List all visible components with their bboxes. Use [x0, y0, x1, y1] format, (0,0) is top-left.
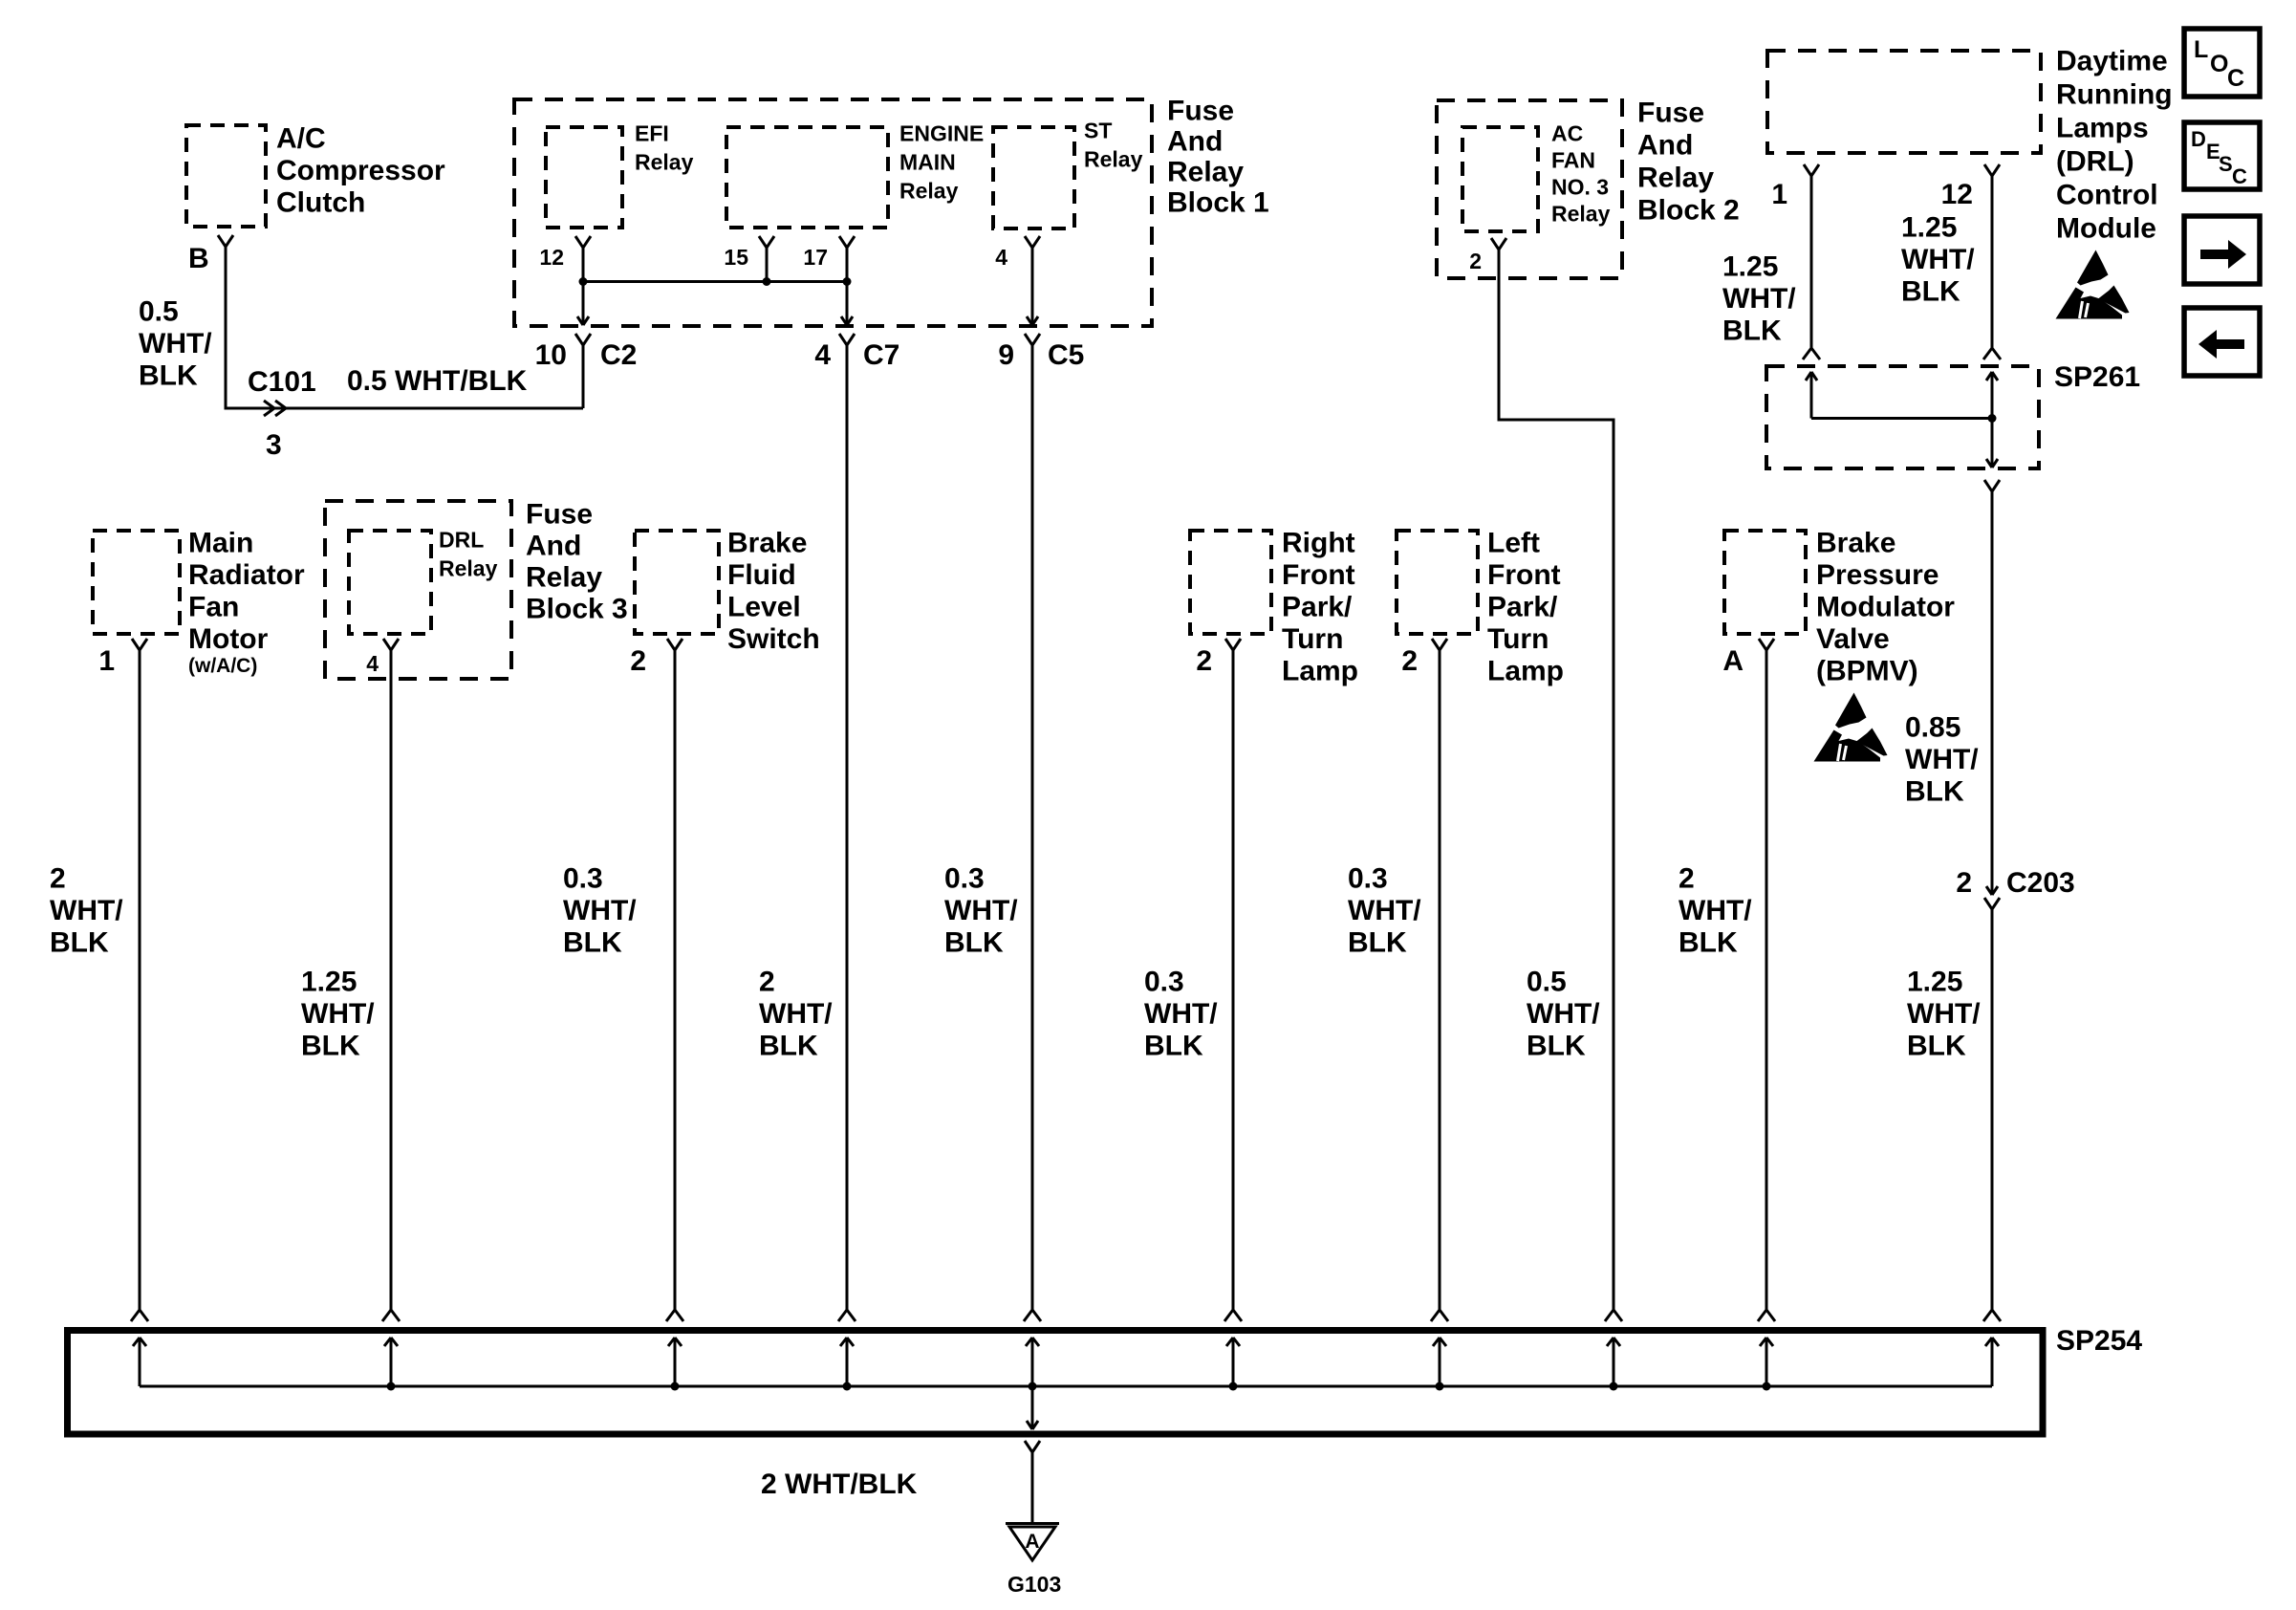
SP261 internal horizontal link: [1811, 417, 1992, 420]
svg-text:Switch: Switch: [727, 623, 820, 655]
svg-text:0.3: 0.3: [1348, 863, 1388, 895]
svg-text:Modulator: Modulator: [1816, 592, 1955, 623]
pin 15 connector of ENGINE MAIN Relay: [759, 236, 774, 248]
Fuse And Relay Block 3 (outer dashed box): [325, 501, 511, 679]
component A/C Compressor Clutch (dashed box): [186, 125, 266, 227]
svg-text:Valve: Valve: [1816, 623, 1890, 655]
svg-text:Control: Control: [2056, 180, 2158, 211]
svg-text:C101: C101: [248, 366, 316, 398]
svg-text:Level: Level: [727, 592, 801, 623]
svg-text:SP254: SP254: [2056, 1325, 2142, 1357]
svg-text:1: 1: [1771, 179, 1787, 210]
svg-text:O: O: [2210, 51, 2228, 77]
bus entry chevron wire 10: [1983, 1310, 2001, 1321]
svg-text:And: And: [1637, 130, 1693, 162]
bus entry chevron wire 7: [1431, 1310, 1448, 1321]
svg-text:2: 2: [1401, 645, 1418, 677]
Fuse And Relay Block 1 (outer dashed box): [514, 99, 1152, 326]
ESD sensitivity symbol (BPMV): [1814, 693, 1888, 762]
svg-text:WHT/: WHT/: [301, 998, 375, 1030]
svg-text:0.85: 0.85: [1905, 712, 1960, 744]
bus entry chevron wire 4: [838, 1310, 856, 1321]
pin 2 connector of brake fluid level switch: [667, 639, 682, 650]
svg-text:0.3: 0.3: [1144, 967, 1184, 998]
svg-text:Front: Front: [1487, 559, 1561, 591]
svg-text:1.25: 1.25: [1901, 212, 1957, 244]
wire 0.3 WHT/BLK right lamp to bus: [1232, 650, 1235, 1312]
relay ENGINE MAIN Relay (dashed box): [726, 127, 888, 228]
svg-text:Motor: Motor: [188, 623, 269, 655]
svg-text:BLK: BLK: [1144, 1031, 1203, 1062]
SP254 internal up-arrow wire 5: [1031, 1338, 1034, 1386]
svg-text:C: C: [2232, 164, 2247, 188]
svg-text:2: 2: [630, 645, 646, 677]
svg-text:0.5: 0.5: [1527, 967, 1567, 998]
junction node on SP254 bus line: [1610, 1382, 1618, 1391]
svg-text:9: 9: [998, 339, 1014, 371]
SP254 internal up-arrow wire 8: [1613, 1338, 1615, 1386]
SP254 internal up-arrow wire 3: [674, 1338, 677, 1386]
svg-text:2: 2: [50, 863, 66, 895]
pin 2 connector of right front lamp: [1225, 639, 1241, 650]
svg-text:Park/: Park/: [1282, 592, 1353, 623]
pin 12 connector of EFI Relay: [575, 236, 591, 248]
svg-text:10: 10: [535, 339, 567, 371]
svg-text:BLK: BLK: [759, 1031, 818, 1062]
svg-text:WHT/: WHT/: [1907, 998, 1981, 1030]
bus entry chevron wire 6: [1224, 1310, 1242, 1321]
svg-text:A: A: [1025, 1531, 1039, 1553]
svg-text:Fuse: Fuse: [1167, 96, 1234, 127]
svg-text:Block 2: Block 2: [1637, 195, 1740, 227]
svg-text:1: 1: [98, 645, 115, 677]
junction node at pin 12 wire: [579, 277, 588, 286]
svg-text:MAIN: MAIN: [899, 150, 956, 175]
svg-text:4: 4: [995, 245, 1007, 270]
svg-text:C203: C203: [2006, 867, 2075, 899]
pin 12 connector of DRL module: [1984, 164, 2000, 176]
svg-text:Turn: Turn: [1282, 623, 1343, 655]
junction node on SP254 bus line: [843, 1382, 852, 1391]
svg-text:Lamp: Lamp: [1487, 656, 1564, 687]
svg-text:WHT/: WHT/: [944, 895, 1018, 926]
wire 2 WHT/BLK to ground: [1031, 1452, 1034, 1522]
connector C7 fork: [839, 334, 855, 345]
svg-text:WHT/: WHT/: [1527, 998, 1600, 1030]
svg-text:2: 2: [1469, 249, 1482, 273]
SP254 ground exit (down arrow): [1031, 1386, 1034, 1429]
wire SP261 to C203: [1991, 491, 1994, 895]
svg-text:A/C: A/C: [276, 123, 326, 155]
svg-text:And: And: [1167, 126, 1223, 158]
bus entry chevron wire 5: [1024, 1310, 1041, 1321]
svg-text:Relay: Relay: [1084, 147, 1143, 172]
bus entry chevron wire 1: [131, 1310, 148, 1321]
svg-text:DRL: DRL: [439, 528, 484, 553]
wire pin 17 down: [846, 248, 849, 282]
wire horizontal 0.5 WHT/BLK to C2: [225, 407, 584, 410]
svg-text:0.3: 0.3: [563, 863, 603, 895]
svg-text:BLK: BLK: [1679, 927, 1738, 959]
wire C7 branch exits block (down arrow): [846, 282, 849, 326]
svg-text:WHT/: WHT/: [1679, 895, 1752, 926]
wire DRL pin 12 down to SP261: [1991, 176, 1994, 348]
svg-text:0.5: 0.5: [139, 296, 179, 328]
svg-text:EFI: EFI: [635, 121, 669, 146]
svg-text:Relay: Relay: [526, 562, 602, 594]
svg-text:BLK: BLK: [301, 1031, 360, 1062]
splice pack SP254 bus (thick box): [68, 1331, 2044, 1435]
component Daytime Running Lamps (DRL) Control Module (dashed box): [1767, 51, 2041, 153]
svg-text:Daytime: Daytime: [2056, 46, 2168, 77]
svg-text:2 WHT/BLK: 2 WHT/BLK: [761, 1469, 918, 1500]
component Brake Fluid Level Switch (dashed box): [635, 531, 719, 634]
svg-text:Lamps: Lamps: [2056, 113, 2149, 144]
SP254 internal up-arrow wire 1: [139, 1338, 141, 1386]
junction node on SP254 bus line: [671, 1382, 680, 1391]
svg-text:0.3: 0.3: [944, 863, 985, 895]
svg-text:(BPMV): (BPMV): [1816, 656, 1918, 687]
SP254 internal bus line: [140, 1385, 1992, 1388]
junction node on SP254 bus line: [1763, 1382, 1771, 1391]
svg-text:B: B: [188, 243, 209, 274]
bus entry chevron wire 2: [382, 1310, 400, 1321]
chevron wire entry SP261 right: [1983, 348, 2001, 359]
svg-text:SP261: SP261: [2054, 361, 2140, 393]
svg-text:4: 4: [366, 651, 379, 676]
svg-text:17: 17: [803, 245, 828, 270]
svg-text:Pressure: Pressure: [1816, 559, 1939, 591]
svg-text:4: 4: [814, 339, 831, 371]
chevron wire entry SP261 left: [1803, 348, 1820, 359]
wire 2 WHT/BLK fan motor to bus: [139, 650, 141, 1312]
junction node on SP254 bus line: [387, 1382, 396, 1391]
SP254 internal up-arrow wire 10: [1991, 1338, 1994, 1386]
svg-text:BLK: BLK: [50, 927, 109, 959]
svg-text:FAN: FAN: [1551, 148, 1595, 173]
splice pack SP261 (dashed box): [1766, 366, 2039, 468]
svg-text:Relay: Relay: [1551, 202, 1611, 227]
svg-text:C7: C7: [863, 339, 899, 371]
svg-text:AC: AC: [1551, 121, 1583, 146]
button back arrow: [2184, 308, 2260, 376]
svg-text:15: 15: [724, 245, 748, 270]
wire up to C2 connector: [582, 345, 585, 408]
pin 1 connector of DRL module: [1804, 164, 1819, 176]
bus entry chevron wire 9: [1758, 1310, 1775, 1321]
wire C7 to SP254 bus: [846, 345, 849, 1312]
svg-text:Fuse: Fuse: [1637, 98, 1704, 129]
button LOC: [2184, 29, 2260, 97]
svg-text:D: D: [2191, 127, 2206, 151]
wire AC FAN pin 2 down and right to bus: [1499, 250, 1614, 1312]
svg-text:BLK: BLK: [1527, 1031, 1586, 1062]
pin A connector of BPMV: [1759, 639, 1774, 650]
svg-text:Main: Main: [188, 528, 253, 559]
wire pin 15 stub: [766, 248, 769, 282]
svg-text:WHT/: WHT/: [50, 895, 123, 926]
component Left Front Park/Turn Lamp (dashed box): [1397, 531, 1478, 634]
component Right Front Park/Turn Lamp (dashed box): [1190, 531, 1271, 634]
wire 0.3 WHT/BLK left lamp to bus: [1439, 650, 1441, 1312]
bus entry chevron wire 3: [666, 1310, 683, 1321]
svg-text:Relay: Relay: [899, 179, 959, 204]
svg-text:1.25: 1.25: [1907, 967, 1962, 998]
svg-text:Fuse: Fuse: [526, 499, 593, 531]
SP254 internal up-arrow wire 2: [390, 1338, 393, 1386]
svg-text:WHT/: WHT/: [563, 895, 637, 926]
component Main Radiator Fan Motor (dashed box): [93, 531, 180, 634]
junction node under pin 17: [843, 277, 852, 286]
svg-text:Relay: Relay: [1167, 157, 1244, 188]
svg-text:BLK: BLK: [1722, 315, 1782, 347]
svg-text:BLK: BLK: [563, 927, 622, 959]
connector C203 (down arrow): [1986, 886, 1998, 895]
svg-text:Right: Right: [1282, 528, 1355, 559]
svg-text:BLK: BLK: [1905, 776, 1964, 808]
wire 0.5 WHT/BLK from A/C clutch pin B down: [225, 247, 227, 408]
relay AC FAN NO. 3 Relay (dashed box): [1462, 127, 1538, 231]
svg-text:C: C: [2227, 65, 2244, 92]
svg-text:Brake: Brake: [1816, 528, 1895, 559]
svg-text:Block 1: Block 1: [1167, 187, 1269, 219]
junction node on SP254 bus line: [1229, 1382, 1238, 1391]
SP261 exit wire down (arrow): [1991, 419, 1994, 468]
svg-text:C2: C2: [600, 339, 637, 371]
svg-text:Fan: Fan: [188, 592, 239, 623]
svg-text:Running: Running: [2056, 79, 2173, 111]
relay ST Relay (dashed box): [993, 127, 1074, 228]
svg-text:ENGINE: ENGINE: [899, 121, 984, 146]
svg-text:12: 12: [539, 245, 564, 270]
pin 4 connector of ST Relay: [1025, 236, 1040, 248]
svg-text:Left: Left: [1487, 528, 1540, 559]
svg-text:G103: G103: [1007, 1572, 1061, 1597]
svg-text:WHT/: WHT/: [1901, 244, 1975, 275]
junction node on SP254 bus line: [1029, 1382, 1037, 1391]
ESD sensitivity symbol (DRL module): [2056, 250, 2130, 319]
pin 17 connector of ENGINE MAIN Relay: [839, 236, 855, 248]
chevron below C203: [1984, 898, 2000, 909]
SP261 internal up-arrow left: [1810, 372, 1813, 419]
junction node in SP261: [1988, 414, 1997, 423]
bus entry chevron wire 8: [1605, 1310, 1622, 1321]
svg-text:Lamp: Lamp: [1282, 656, 1358, 687]
svg-text:2: 2: [1956, 867, 1972, 899]
svg-text:L: L: [2194, 36, 2208, 63]
wire 2 WHT/BLK BFLS to bus: [674, 650, 677, 1312]
button DESC: [2184, 122, 2260, 189]
svg-text:2: 2: [759, 967, 775, 998]
button forward arrow: [2184, 216, 2260, 284]
svg-text:3: 3: [266, 429, 282, 461]
connector C2 fork: [575, 334, 591, 345]
pin 2 connector of AC FAN NO. 3 Relay: [1491, 238, 1506, 250]
svg-text:WHT/: WHT/: [759, 998, 833, 1030]
svg-text:WHT/: WHT/: [1905, 744, 1979, 775]
wire C2 branch exits block (down arrow): [582, 282, 585, 326]
svg-text:1.25: 1.25: [1722, 251, 1778, 283]
svg-text:Module: Module: [2056, 213, 2156, 245]
wire C5 to SP254 bus: [1031, 345, 1034, 1312]
svg-text:WHT/: WHT/: [1144, 998, 1218, 1030]
wire horizontal junction 12-15-17: [583, 280, 847, 283]
svg-text:WHT/: WHT/: [1722, 283, 1796, 315]
svg-text:0.5 WHT/BLK: 0.5 WHT/BLK: [347, 365, 528, 397]
svg-text:Relay: Relay: [439, 556, 498, 581]
svg-text:Relay: Relay: [1637, 163, 1714, 194]
wire 1.25 WHT/BLK DRL relay to bus: [390, 650, 393, 1312]
wire 2 WHT/BLK BPMV to bus: [1765, 650, 1768, 1312]
SP254 internal up-arrow wire 4: [846, 1338, 849, 1386]
svg-text:And: And: [526, 531, 581, 562]
component Brake Pressure Modulator Valve BPMV (dashed box): [1724, 531, 1806, 634]
junction node on SP254 bus line: [1436, 1382, 1444, 1391]
svg-text:Clutch: Clutch: [276, 187, 365, 219]
svg-text:BLK: BLK: [139, 360, 198, 392]
wire C203 to SP254 bus: [1991, 909, 1994, 1312]
chevron below SP254: [1025, 1441, 1040, 1452]
svg-text:C5: C5: [1048, 339, 1084, 371]
svg-text:BLK: BLK: [1348, 927, 1407, 959]
svg-text:12: 12: [1941, 179, 1973, 210]
svg-text:Relay: Relay: [635, 150, 694, 175]
svg-text:Block 3: Block 3: [526, 594, 628, 625]
svg-text:S: S: [2219, 152, 2233, 176]
chevron below SP261: [1984, 480, 2000, 491]
relay EFI Relay (dashed box): [546, 127, 622, 228]
SP254 internal up-arrow wire 9: [1765, 1338, 1768, 1386]
svg-text:1.25: 1.25: [301, 967, 357, 998]
connector C5 fork: [1025, 334, 1040, 345]
svg-text:2: 2: [1196, 645, 1212, 677]
pin 4 connector of DRL relay: [383, 639, 399, 650]
junction node under pin 15: [763, 277, 771, 286]
svg-text:A: A: [1722, 645, 1744, 677]
svg-text:Compressor: Compressor: [276, 155, 445, 186]
svg-text:Brake: Brake: [727, 528, 807, 559]
svg-text:(w/A/C): (w/A/C): [188, 655, 257, 677]
svg-text:Radiator: Radiator: [188, 559, 305, 591]
svg-text:WHT/: WHT/: [139, 328, 212, 359]
svg-text:WHT/: WHT/: [1348, 895, 1421, 926]
svg-text:Fluid: Fluid: [727, 559, 796, 591]
relay DRL Relay (dashed box): [349, 531, 431, 634]
SP261 internal up-arrow right: [1991, 372, 1994, 419]
svg-text:NO. 3: NO. 3: [1551, 175, 1609, 200]
pin 1 connector of fan motor: [132, 639, 147, 650]
svg-text:ST: ST: [1084, 119, 1112, 143]
wire EFI pin 12 down to junction: [582, 248, 585, 282]
svg-text:(DRL): (DRL): [2056, 146, 2134, 178]
SP254 internal up-arrow wire 7: [1439, 1338, 1441, 1386]
ground symbol G103 (triangle A): [1006, 1522, 1059, 1525]
SP254 internal up-arrow wire 6: [1232, 1338, 1235, 1386]
wire ST pin 4 down, exits block (down arrow): [1031, 248, 1034, 325]
svg-text:BLK: BLK: [1901, 276, 1960, 308]
wire DRL pin 1 down to SP261: [1810, 176, 1813, 348]
Fuse And Relay Block 2 (outer dashed box): [1437, 100, 1622, 278]
pin 2 connector of left front lamp: [1432, 639, 1447, 650]
pin B connector of A/C Compressor Clutch: [218, 235, 233, 247]
svg-text:BLK: BLK: [944, 927, 1004, 959]
svg-text:BLK: BLK: [1907, 1031, 1966, 1062]
connector C101 chevrons: [264, 401, 286, 416]
svg-text:2: 2: [1679, 863, 1695, 895]
svg-text:Front: Front: [1282, 559, 1355, 591]
svg-text:Turn: Turn: [1487, 623, 1549, 655]
svg-text:Park/: Park/: [1487, 592, 1558, 623]
